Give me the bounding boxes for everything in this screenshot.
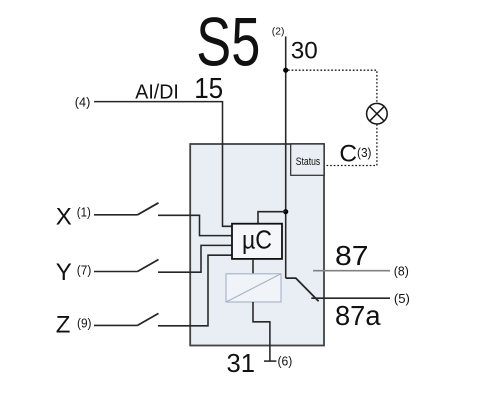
svg-text:Status: Status (296, 156, 321, 168)
svg-text:µC: µC (242, 224, 272, 254)
svg-text:(8): (8) (394, 264, 409, 278)
wire: junction to uC top (258, 212, 286, 224)
svg-text:X: X (56, 203, 72, 230)
switch X lever (138, 203, 159, 215)
relay coil K1 (226, 274, 281, 302)
wire: X switch to uC (158, 215, 232, 235)
switch Y lever (138, 260, 159, 272)
svg-text:(7): (7) (77, 264, 92, 278)
svg-text:Z: Z (56, 311, 71, 338)
svg-text:(6): (6) (278, 354, 293, 368)
svg-text:(2): (2) (272, 25, 285, 37)
wire: terminal 30 vertical (285, 37, 287, 279)
dotted wire: junction to lamp (top run) (288, 70, 377, 103)
wire: Y switch to uC (158, 245, 232, 272)
module body S5 (main box) (190, 144, 324, 346)
wire: AI/DI input 15 into uC (94, 102, 232, 227)
svg-text:15: 15 (194, 73, 223, 105)
wire: Z input lead (94, 324, 138, 326)
svg-text:(9): (9) (77, 316, 92, 330)
junction node at 30 / lamp tap (283, 68, 288, 73)
svg-text:31: 31 (227, 348, 256, 378)
wire: Y input lead (94, 271, 138, 273)
junction node at 30 / uC tap (283, 209, 288, 214)
relay contact lever (30 to 87a) (286, 278, 319, 301)
microcontroller U1 (uC box) (232, 224, 282, 259)
switch Z lever (138, 313, 159, 325)
wire: terminal 87 (gray) (313, 270, 390, 272)
svg-text:87: 87 (335, 240, 369, 271)
svg-text:(1): (1) (77, 205, 91, 219)
svg-text:87a: 87a (335, 300, 381, 331)
wire: uC to relay coil (252, 259, 254, 274)
svg-text:(5): (5) (394, 292, 410, 306)
svg-text:C: C (339, 141, 357, 168)
svg-text:Y: Y (56, 259, 72, 286)
wire: Z switch to uC (158, 255, 232, 326)
wire: X input lead (94, 214, 138, 216)
dotted wire: lamp to terminal C (bottom run) (325, 124, 377, 165)
lamp L1 (367, 103, 388, 124)
svg-text:(4): (4) (75, 96, 91, 110)
wire: terminal 87a (311, 297, 390, 299)
wire: coil to terminal 31 (253, 302, 270, 362)
terminal tick 31 (264, 360, 276, 362)
status box (291, 144, 324, 175)
svg-text:(3): (3) (357, 146, 372, 160)
svg-text:S5: S5 (196, 3, 260, 80)
svg-text:30: 30 (291, 37, 318, 64)
svg-text:AI/DI: AI/DI (135, 80, 179, 103)
